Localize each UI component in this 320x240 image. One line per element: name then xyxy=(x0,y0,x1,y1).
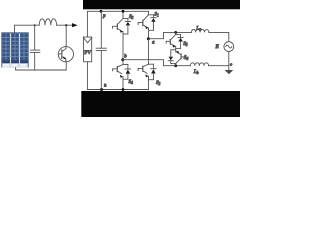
wire: PV box to top rail xyxy=(87,11,101,37)
bottom black redaction band xyxy=(81,91,240,117)
wire: input capacitor branch xyxy=(34,25,36,49)
IGBT S1 (top right leg) xyxy=(138,11,156,30)
wire: S1 emitter to node a xyxy=(148,30,150,38)
IGBT S6 (bypass lower, rotated 180) xyxy=(168,48,185,63)
node on top rail at S3 xyxy=(122,10,125,13)
node: T junction above boost switch xyxy=(65,24,67,26)
wire: panel top lead up and across xyxy=(15,25,40,32)
wire: node b to bypass/Lb (lower output line) xyxy=(123,60,190,66)
svg-text:PV: PV xyxy=(84,50,91,56)
wire: La to source E xyxy=(209,32,229,41)
node a xyxy=(147,37,150,40)
node on bottom rail at S4 xyxy=(122,88,125,91)
AC source E xyxy=(224,42,234,52)
node n xyxy=(100,88,103,91)
boost inductor L xyxy=(39,19,56,25)
PV panel array (pictorial) xyxy=(1,32,28,67)
DC link capacitor xyxy=(100,11,102,47)
node b xyxy=(121,58,124,61)
IGBT S3 (top left leg) xyxy=(113,11,131,34)
node: bypass bottom junction xyxy=(174,64,177,67)
wire: PV box to bottom rail xyxy=(87,62,101,90)
node: capacitor branch tap xyxy=(34,24,36,26)
inductor Lb xyxy=(190,63,208,66)
node: bypass top junction xyxy=(174,31,177,34)
IGBT S4 (bottom left leg) xyxy=(113,60,131,79)
IGBT S5 (bypass upper) xyxy=(166,32,183,48)
capacitor Cin plates xyxy=(30,49,39,51)
inductor La xyxy=(191,29,209,32)
ground xyxy=(225,70,234,74)
bottom rail n xyxy=(102,89,149,91)
PV source box xyxy=(84,37,92,62)
wire: Lb to node o xyxy=(209,65,229,67)
wire: boost switch emitter lead xyxy=(65,62,67,70)
wire: S2 emitter to bottom rail corner xyxy=(148,80,150,90)
boost transistor Q (circled) xyxy=(58,47,73,62)
wire: boost switch collector lead xyxy=(65,25,67,46)
wire: E to node o and ground xyxy=(228,52,230,71)
top rail p xyxy=(101,10,149,12)
wire: bypass bottom lead xyxy=(175,64,177,66)
node p xyxy=(100,10,103,13)
top black redaction band xyxy=(83,0,240,9)
wire: node a to bypass/La (upper output line) xyxy=(148,32,191,38)
wire: inductor to arrow with T junction xyxy=(57,24,73,26)
wire: bottom return of input stage xyxy=(16,68,67,71)
wire: S4 emitter to bottom rail xyxy=(122,79,124,89)
IGBT S2 (bottom right leg) xyxy=(138,39,156,80)
wire: S3 emitter to node b xyxy=(122,34,124,60)
svg-text:p: p xyxy=(102,13,106,19)
svg-text:E: E xyxy=(215,44,220,50)
arrow head (to DC bus) xyxy=(72,23,78,27)
